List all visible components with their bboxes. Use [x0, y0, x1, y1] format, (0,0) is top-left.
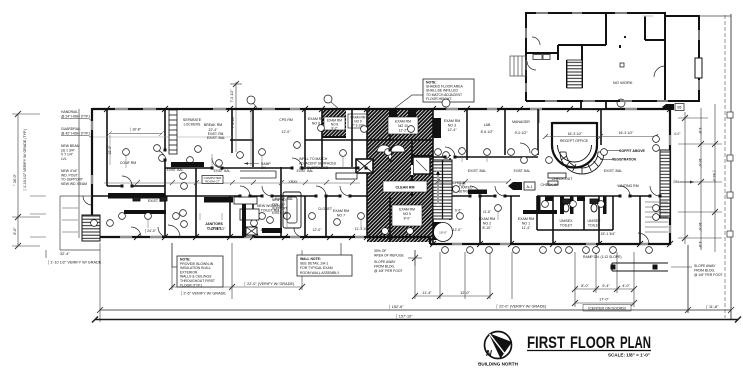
- svg-text:16'-3 1/2": 16'-3 1/2": [619, 131, 635, 135]
- corridor dim string left section: [104, 180, 360, 185]
- tag circles with leaders: [91, 95, 660, 253]
- house fixtures: [533, 36, 626, 67]
- section marker arrow: [508, 182, 535, 190]
- corridor ramp: [240, 171, 276, 178]
- bottom dim labels: [47, 252, 719, 320]
- svg-text:INFILL TO MATCH: INFILL TO MATCH: [299, 157, 328, 161]
- svg-text:CONF RM: CONF RM: [120, 161, 136, 165]
- svg-text:ROOM WALL ASSEMBLY.: ROOM WALL ASSEMBLY.: [300, 271, 340, 275]
- svg-text:WAITING RM: WAITING RM: [617, 184, 638, 188]
- house stair: [567, 60, 582, 88]
- note box 5: shaded floor area note (top): [391, 79, 474, 111]
- svg-text:XRAY: XRAY: [288, 180, 298, 184]
- svg-text:EXIST. BAL: EXIST. BAL: [468, 169, 486, 173]
- svg-text:EXAM RM: EXAM RM: [399, 208, 415, 212]
- svg-text:8'-0": 8'-0": [13, 227, 17, 235]
- svg-text:4'-6 1/2": 4'-6 1/2": [261, 228, 275, 232]
- right stair: [660, 150, 670, 218]
- svg-text:NO 5: NO 5: [403, 212, 411, 216]
- solid black wall chunks: [108, 109, 564, 240]
- right porch deck dashed edge + posts: [725, 15, 733, 318]
- svg-text:EXIST. BM.: EXIST. BM.: [272, 211, 288, 215]
- svg-text:N: N: [486, 349, 492, 358]
- soffit/registration leaders: [600, 151, 620, 160]
- svg-text:TOILET: TOILET: [560, 223, 573, 227]
- svg-text:1'-8": 1'-8": [698, 241, 702, 249]
- house right bay window: [695, 58, 702, 78]
- long dimension line B (157'-10"): [92, 317, 741, 323]
- svg-text:12'-0": 12'-0": [453, 228, 463, 232]
- svg-text:8'-10": 8'-10": [483, 226, 493, 230]
- slope leader right: [671, 266, 692, 268]
- note box 2: wall note: [297, 243, 352, 276]
- shelves black bar: [468, 190, 487, 195]
- grid dim line x=236 inside building + label: [235, 110, 237, 152]
- svg-text:4'-0": 4'-0": [674, 132, 680, 136]
- svg-text:FROM BLDG.: FROM BLDG.: [374, 265, 395, 269]
- svg-text:REGISTRATION: REGISTRATION: [612, 158, 637, 162]
- svg-text:10'-0": 10'-0": [698, 222, 702, 232]
- svg-text:NO 10: NO 10: [398, 124, 408, 128]
- svg-text:LVL: LVL: [61, 157, 67, 161]
- registration fan desk: [560, 152, 604, 174]
- corridor dim string right section: [435, 179, 511, 184]
- house left stoop: [510, 56, 526, 76]
- dim chain tick marks on top wall: [104, 106, 673, 112]
- label box on hatch band 2: [324, 117, 345, 130]
- xray equip box symbol: [336, 159, 373, 179]
- bottom exterior wall right part: [430, 243, 670, 245]
- svg-text:EXIST. BAL: EXIST. BAL: [604, 169, 622, 173]
- svg-text:32'-4": 32'-4": [60, 252, 70, 256]
- white double door arcs in hatch top: [377, 145, 391, 152]
- svg-text:RECEPT OFFICE: RECEPT OFFICE: [560, 139, 589, 143]
- svg-text:FOR TYPICAL EXAM: FOR TYPICAL EXAM: [300, 266, 333, 270]
- svg-text:NO 6: NO 6: [312, 121, 320, 125]
- dim chain tick marks on bottom wall: [134, 234, 673, 247]
- right rotated dim labels: [698, 127, 716, 249]
- svg-text:@ 1/8" PER FOOT: @ 1/8" PER FOOT: [374, 269, 403, 273]
- svg-text:9'-4": 9'-4": [602, 284, 610, 288]
- house door arcs: [527, 37, 665, 77]
- svg-text:⌜ 36'-0": ⌜ 36'-0": [12, 173, 17, 186]
- svg-text:EXIST.: EXIST.: [385, 169, 395, 173]
- svg-text:EXIST. BAL: EXIST. BAL: [214, 169, 231, 173]
- interior rotated dim at left: [108, 135, 112, 165]
- svg-text:AREA OF REFUGE: AREA OF REFUGE: [374, 254, 405, 258]
- left rotated dim labels: [12, 129, 28, 235]
- svg-text:10'-0": 10'-0": [439, 231, 447, 235]
- svg-text:CLOSET: CLOSET: [318, 207, 333, 211]
- text block 4: slope away right: [694, 264, 723, 277]
- svg-text:10'-0": 10'-0": [698, 158, 702, 168]
- long dimension line A (152'-6"): [97, 14, 734, 320]
- big turning circle near center stair: [434, 223, 453, 242]
- svg-text:BUILDING NORTH: BUILDING NORTH: [478, 362, 518, 367]
- text block 3: area of refuge / slope: [374, 249, 405, 273]
- leaders for top tags: [253, 102, 694, 184]
- svg-text:TOILET: TOILET: [588, 223, 601, 227]
- svg-text:12'-0": 12'-0": [460, 291, 470, 295]
- svg-text:EXIST. BAL: EXIST. BAL: [207, 136, 225, 140]
- svg-text:CPS RM: CPS RM: [279, 118, 293, 122]
- interior walls horizontal: [92, 140, 670, 230]
- svg-text:FROM BLDG.: FROM BLDG.: [694, 269, 715, 273]
- right exterior wall: [669, 108, 671, 245]
- interior walls vertical: [107, 109, 640, 244]
- svg-text:CLEAN RM: CLEAN RM: [396, 186, 415, 190]
- reception curved wall: [539, 110, 597, 168]
- top vestibule bump: [581, 101, 606, 109]
- shaded infill floor area (hatch): [367, 109, 433, 242]
- center on doors boxed label: [583, 305, 631, 312]
- svg-text:SLOPE AWAY: SLOPE AWAY: [374, 260, 396, 264]
- right chains: [574, 252, 576, 307]
- bottom jog: [429, 237, 431, 244]
- svg-text:EXAM RM: EXAM RM: [395, 120, 411, 124]
- svg-text:11'-3 1/2": 11'-3 1/2": [355, 227, 370, 231]
- top exterior wall: [92, 108, 670, 110]
- svg-text:17'-0": 17'-0": [599, 298, 609, 302]
- svg-text:CHECK-OUT: CHECK-OUT: [552, 177, 574, 181]
- svg-text:NO WORK: NO WORK: [613, 80, 633, 85]
- svg-text:9'-0 1/2": 9'-0 1/2": [515, 131, 529, 135]
- left exterior stair: [82, 215, 100, 241]
- corridor dim leaders: [126, 154, 498, 228]
- svg-text:PLAN: PLAN: [620, 334, 651, 352]
- dim lines under 16'-3 1/2 labels: [543, 134, 658, 139]
- svg-text:NO 2: NO 2: [483, 221, 491, 225]
- svg-text:EXIST. BAL: EXIST. BAL: [167, 168, 184, 172]
- middle chains: [414, 250, 416, 299]
- svg-text:1'-8": 1'-8": [698, 127, 702, 135]
- check-out desk: [548, 173, 566, 185]
- svg-text:6'-6": 6'-6": [455, 209, 461, 213]
- svg-text:@ 1/8" PER FOOT: @ 1/8" PER FOOT: [694, 273, 723, 277]
- svg-text:FIRST: FIRST: [527, 334, 565, 352]
- svg-text:LOCKERS: LOCKERS: [184, 122, 201, 126]
- svg-text:CHECK-IN: CHECK-IN: [541, 183, 558, 187]
- svg-text:11'-8": 11'-8": [483, 210, 491, 214]
- svg-text:MEDICATION: MEDICATION: [209, 198, 229, 202]
- door opening gaps (white): [122, 150, 660, 196]
- svg-text:30% OF: 30% OF: [374, 249, 386, 253]
- svg-text:11'-4": 11'-4": [422, 291, 432, 295]
- svg-text:FLOOR: FLOOR: [570, 334, 615, 352]
- svg-text:LAB: LAB: [484, 123, 491, 127]
- left exterior wall: [91, 108, 93, 238]
- svg-text:12'-0": 12'-0": [313, 228, 323, 232]
- faint existing-wall line through break room: [93, 136, 232, 138]
- svg-text:ADJACENT SURFACES: ADJACENT SURFACES: [299, 162, 337, 166]
- svg-text:12'-2": 12'-2": [399, 129, 408, 133]
- white sub-room in hatch: [413, 157, 430, 174]
- infill note text: [299, 157, 337, 170]
- svg-text:SCALE: 1/8" = 1'-0": SCALE: 1/8" = 1'-0": [608, 353, 650, 358]
- svg-text:4'-0": 4'-0": [622, 284, 630, 288]
- door jamb posts: [121, 149, 662, 198]
- left vertical dimension line: [17, 114, 19, 246]
- svg-text:WALL NOTE:: WALL NOTE:: [300, 257, 321, 261]
- house outline: [526, 13, 699, 101]
- area of refuge dim: [414, 250, 416, 266]
- bottom interior dim chain labels: [144, 227, 616, 236]
- svg-text:8'-6 1/2": 8'-6 1/2": [481, 130, 495, 134]
- svg-text:SLOPE AWAY: SLOPE AWAY: [694, 264, 716, 268]
- svg-text:FLOOR (TYP.): FLOOR (TYP.): [180, 283, 202, 287]
- svg-text:A-1: A-1: [526, 184, 533, 189]
- svg-text:NEW WD. BEAM: NEW WD. BEAM: [61, 182, 87, 186]
- svg-text:12'-4": 12'-4": [448, 128, 458, 132]
- svg-text:8'-0": 8'-0": [581, 284, 589, 288]
- interior walls: [605, 13, 607, 45]
- toilet cluster dark partitions: [537, 196, 607, 214]
- svg-text:12'-0": 12'-0": [282, 130, 292, 134]
- top vertical dim at x=236: [235, 82, 237, 110]
- svg-text:NO 3: NO 3: [448, 123, 456, 127]
- left bottom chain: [172, 286, 302, 288]
- toilet fixtures: [133, 197, 598, 212]
- svg-text:NO 1: NO 1: [522, 221, 530, 225]
- svg-text:RAMP DN. (1:12 SLOPE): RAMP DN. (1:12 SLOPE): [583, 255, 622, 259]
- svg-text:ROOM CT: ROOM CT: [205, 180, 220, 184]
- hatch band 2 (left strip): [322, 109, 346, 137]
- dense pocket details (janitor/control/dressing): [171, 162, 301, 237]
- center stair: [433, 160, 452, 219]
- bottom exterior wall left part: [92, 236, 430, 238]
- handrail notes (left): [61, 110, 90, 186]
- svg-text:17'-3 1/2": 17'-3 1/2": [211, 227, 227, 231]
- svg-text:22'-2": 22'-2": [108, 145, 112, 154]
- hatch area white label boxes: [383, 117, 427, 226]
- svg-text:@ 24" HIGH (TYP.): @ 24" HIGH (TYP.): [61, 114, 90, 118]
- label box room next to hatch: [348, 114, 368, 128]
- svg-text:15'-1 3/4": 15'-1 3/4": [601, 232, 617, 236]
- extension verticals bottom left: [99, 243, 101, 322]
- svg-text:8'-0": 8'-0": [404, 217, 412, 221]
- top-right section marker arrow: [662, 104, 684, 111]
- room labels: [107, 117, 679, 231]
- svg-text:EXIST. BAL: EXIST. BAL: [514, 169, 531, 173]
- svg-text:NO 7: NO 7: [337, 213, 345, 217]
- svg-text:11'-4": 11'-4": [522, 226, 531, 230]
- svg-text:SOFFIT ABOVE: SOFFIT ABOVE: [619, 149, 645, 153]
- window gaps on exterior walls: [92, 109, 670, 244]
- north arrow symbol: [485, 332, 513, 359]
- lockers ladder top left: [169, 110, 177, 154]
- thin line from house to right: [699, 15, 731, 17]
- svg-text:MANAGER: MANAGER: [512, 120, 530, 124]
- door swing arcs: [83, 143, 660, 244]
- porch rail ticks bottom-left: [30, 196, 78, 237]
- svg-text:16'-3 1/2": 16'-3 1/2": [568, 132, 584, 136]
- right vertical dimension lines: [684, 112, 686, 244]
- svg-text:B5: B5: [678, 106, 682, 110]
- left porch deck edge: [60, 109, 100, 250]
- svg-text:SEE DETAIL 1/A-1: SEE DETAIL 1/A-1: [300, 262, 328, 266]
- svg-text:EXIST. BAL: EXIST. BAL: [297, 169, 314, 173]
- svg-text:EXIST. RM.: EXIST. RM.: [208, 132, 225, 136]
- svg-text:BREAK RM: BREAK RM: [204, 123, 222, 127]
- svg-text:@ 42" HIGH (TYP.): @ 42" HIGH (TYP.): [61, 131, 90, 135]
- svg-text:[CENTER ON DOORS]: [CENTER ON DOORS]: [588, 307, 625, 311]
- svg-text:DN: DN: [673, 180, 679, 184]
- extra small annotations: [167, 132, 531, 173]
- svg-text:JANITORS: JANITORS: [205, 222, 223, 226]
- right-bottom stair treads: [645, 202, 668, 232]
- exterior walls: [92, 108, 670, 245]
- svg-text:9'-2": 9'-2": [331, 126, 337, 130]
- svg-text:7'-3 1/2": 7'-3 1/2": [230, 89, 234, 103]
- house window gaps: [526, 13, 699, 101]
- note box 1: insulation note: [172, 243, 223, 287]
- svg-text:7'-3 1/2": 7'-3 1/2": [231, 115, 235, 128]
- ramp bottom right: [611, 263, 668, 271]
